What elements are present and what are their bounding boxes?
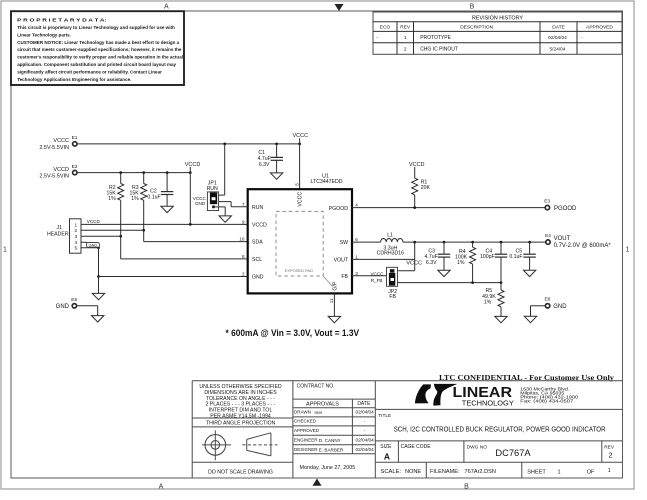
svg-text:8: 8 (242, 254, 245, 259)
svg-text:1: 1 (355, 255, 358, 260)
svg-text:This circuit is proprietary to: This circuit is proprietary to Linear Te… (17, 25, 175, 30)
svg-text:Technology Applications Engine: Technology Applications Engineering for … (17, 77, 131, 82)
svg-text:SHEET: SHEET (527, 470, 546, 476)
svg-text:APPROVED: APPROVED (294, 428, 320, 433)
svg-text:VOUT: VOUT (334, 258, 349, 264)
svg-text:NONE: NONE (405, 469, 421, 475)
svg-text:02/04/04: 02/04/04 (355, 447, 374, 452)
svg-text:APPROVED: APPROVED (586, 25, 613, 31)
svg-text:0.1uF: 0.1uF (147, 195, 160, 201)
svg-text:3: 3 (74, 234, 77, 240)
svg-text:TITLE: TITLE (378, 413, 391, 419)
svg-text:SCALE:: SCALE: (381, 469, 402, 475)
svg-text:CUSTOMER NOTICE: Linear Techn: CUSTOMER NOTICE: Linear Technology has m… (17, 40, 179, 45)
svg-text:1: 1 (557, 470, 560, 476)
svg-text:DATE: DATE (552, 25, 564, 31)
svg-text:VCCC: VCCC (293, 133, 309, 139)
svg-text:ENGINEER: ENGINEER (294, 437, 318, 442)
svg-text:1: 1 (626, 246, 630, 253)
svg-text:1%: 1% (484, 300, 492, 306)
svg-text:CHG IC PINOUT: CHG IC PINOUT (420, 46, 458, 52)
svg-text:Monday, June 27, 2005: Monday, June 27, 2005 (300, 465, 356, 471)
svg-text:1: 1 (404, 35, 407, 41)
svg-text:6.3V: 6.3V (426, 260, 437, 266)
svg-text:LTC CONFIDENTIAL - For Custome: LTC CONFIDENTIAL - For Customer Use Only (439, 374, 615, 382)
svg-text:E5: E5 (71, 297, 77, 303)
svg-text:G/P: G/P (333, 281, 339, 290)
svg-text:VCCD: VCCD (252, 223, 267, 229)
svg-text:PGOOD: PGOOD (554, 206, 577, 212)
svg-text:D. CANNY: D. CANNY (319, 438, 341, 443)
svg-text:DC767A: DC767A (495, 448, 530, 458)
svg-text:significantly affect circuit p: significantly affect circuit performance… (17, 69, 162, 74)
svg-text:2: 2 (608, 451, 612, 460)
svg-text:1: 1 (74, 222, 77, 228)
svg-text:FB: FB (389, 294, 396, 300)
svg-text:GND: GND (89, 243, 98, 247)
svg-text:1%: 1% (457, 260, 465, 266)
svg-text:REV: REV (400, 25, 411, 31)
svg-text:2.5V-5.5VIN: 2.5V-5.5VIN (39, 145, 69, 151)
svg-text:FB: FB (341, 274, 348, 280)
svg-text:SIZE: SIZE (380, 444, 392, 450)
svg-text:VCCD: VCCD (53, 167, 69, 173)
svg-text:EXPOSED PAD: EXPOSED PAD (285, 268, 313, 273)
svg-text:2: 2 (404, 46, 407, 52)
svg-text:VCCC: VCCC (298, 192, 304, 207)
svg-text:3: 3 (355, 271, 358, 276)
svg-text:2.5V-5.5VIN: 2.5V-5.5VIN (39, 174, 69, 180)
svg-text:2: 2 (242, 272, 245, 277)
svg-text:A: A (164, 3, 169, 10)
svg-text:OF: OF (587, 470, 595, 476)
svg-text:B: B (470, 3, 475, 10)
svg-text:A: A (384, 451, 390, 461)
svg-text:CHECKED: CHECKED (294, 419, 317, 424)
svg-text:Fax: (408) 434-0507: Fax: (408) 434-0507 (520, 399, 574, 404)
svg-text:mei: mei (315, 410, 322, 415)
svg-text:0.7V-2.0V @ 600mA*: 0.7V-2.0V @ 600mA* (554, 243, 612, 249)
svg-text:1: 1 (3, 246, 7, 253)
svg-text:VCCD: VCCD (409, 162, 425, 168)
svg-text:E3: E3 (544, 199, 550, 205)
svg-text:B: B (464, 484, 469, 491)
svg-text:SDA: SDA (252, 240, 263, 246)
svg-text:GND: GND (56, 304, 70, 310)
svg-text:02/04/04: 02/04/04 (548, 35, 567, 41)
svg-text:9: 9 (242, 220, 245, 225)
svg-text:2: 2 (74, 228, 77, 234)
svg-text:5: 5 (295, 183, 300, 186)
svg-text:DWG NO: DWG NO (467, 444, 488, 450)
svg-text:RUN: RUN (252, 205, 263, 211)
svg-text:6.3V: 6.3V (259, 162, 270, 168)
svg-text:1%: 1% (108, 196, 116, 202)
svg-text:GND: GND (252, 275, 264, 281)
svg-text:SW: SW (340, 240, 348, 246)
svg-text:application. Component substi: application. Component substitution and … (17, 62, 176, 67)
svg-text:REVISION HISTORY: REVISION HISTORY (472, 15, 523, 21)
svg-text:DESCRIPTION: DESCRIPTION (460, 25, 493, 31)
svg-text:CONTRACT NO.: CONTRACT NO. (297, 384, 335, 390)
svg-text:GND: GND (553, 304, 567, 310)
svg-text:100pF: 100pF (480, 254, 495, 260)
svg-text:11: 11 (329, 298, 334, 303)
svg-text:GND: GND (195, 201, 206, 206)
svg-text:767Ar2.DSN: 767Ar2.DSN (465, 469, 496, 475)
svg-text:VCCC: VCCC (406, 260, 422, 266)
svg-text:E6: E6 (544, 297, 550, 303)
svg-text:HEADER: HEADER (47, 231, 69, 237)
svg-text:FILENAME:: FILENAME: (430, 469, 460, 475)
svg-text:J1: J1 (57, 225, 63, 231)
svg-text:1: 1 (608, 468, 611, 474)
svg-text:SCL: SCL (252, 257, 262, 263)
svg-text:customer's responsibility to v: customer's responsibility to verify prop… (17, 55, 183, 60)
svg-text:DATE: DATE (357, 401, 371, 407)
svg-text:5: 5 (74, 246, 77, 252)
svg-text:CAGE CODE: CAGE CODE (401, 444, 432, 450)
svg-text:* 600mA @ Vin = 3.0V, Vout = 1: * 600mA @ Vin = 3.0V, Vout = 1.3V (226, 328, 360, 338)
svg-text:E4: E4 (545, 233, 551, 239)
svg-text:L1: L1 (387, 232, 393, 238)
svg-text:1%: 1% (131, 196, 139, 202)
svg-text:PGOOD: PGOOD (329, 206, 349, 212)
svg-text:APPROVALS: APPROVALS (306, 401, 339, 407)
svg-text:R_FB: R_FB (371, 278, 383, 283)
svg-text:REV: REV (604, 444, 615, 450)
svg-text:5/24/04: 5/24/04 (549, 46, 565, 52)
svg-text:TECHNOLOGY: TECHNOLOGY (462, 398, 514, 407)
svg-text:Linear Technology parts.: Linear Technology parts. (17, 32, 71, 37)
svg-text:THIRD ANGLE PROJECTION: THIRD ANGLE PROJECTION (206, 421, 276, 427)
svg-text:P R O P R I E T A R Y D A T: P R O P R I E T A R Y D A T A: (17, 18, 107, 23)
svg-text:E2: E2 (72, 164, 78, 170)
svg-text:E1: E1 (72, 135, 78, 141)
svg-text:VCCD: VCCD (185, 162, 201, 168)
svg-text:RUN: RUN (207, 186, 218, 192)
svg-text:A: A (159, 484, 164, 491)
svg-text:7: 7 (242, 202, 245, 207)
svg-text:20K: 20K (421, 185, 431, 191)
svg-text:02/04/04: 02/04/04 (355, 410, 374, 415)
svg-text:10: 10 (239, 237, 245, 242)
svg-text:VCCD: VCCD (87, 219, 101, 224)
svg-text:CDRH3D16: CDRH3D16 (377, 251, 405, 257)
svg-text:DESIGNER: DESIGNER (294, 447, 318, 452)
svg-text:PER ASME Y14.5M -1994: PER ASME Y14.5M -1994 (210, 413, 271, 419)
svg-text:ECO: ECO (380, 25, 391, 31)
svg-text:6: 6 (355, 237, 358, 242)
svg-text:VOUT: VOUT (554, 236, 571, 242)
svg-text:SCH, I2C CONTROLLED BUCK REGUL: SCH, I2C CONTROLLED BUCK REGULATOR, POWE… (394, 427, 606, 434)
svg-text:DO NOT SCALE DRAWING: DO NOT SCALE DRAWING (208, 469, 273, 475)
svg-text:E. BARBER: E. BARBER (319, 448, 344, 453)
svg-text:VCCC: VCCC (53, 138, 69, 144)
svg-text:02/04/04: 02/04/04 (355, 437, 374, 442)
svg-text:PROTOTYPE: PROTOTYPE (420, 35, 451, 41)
svg-text:circuit that meets customer-su: circuit that meets customer-supplied spe… (17, 47, 182, 52)
svg-text:4: 4 (74, 240, 77, 246)
svg-text:LTC3447EDD: LTC3447EDD (311, 179, 343, 185)
svg-text:4: 4 (355, 203, 358, 208)
svg-text:0.1uF: 0.1uF (509, 254, 522, 260)
svg-text:DRAWN: DRAWN (294, 410, 311, 415)
